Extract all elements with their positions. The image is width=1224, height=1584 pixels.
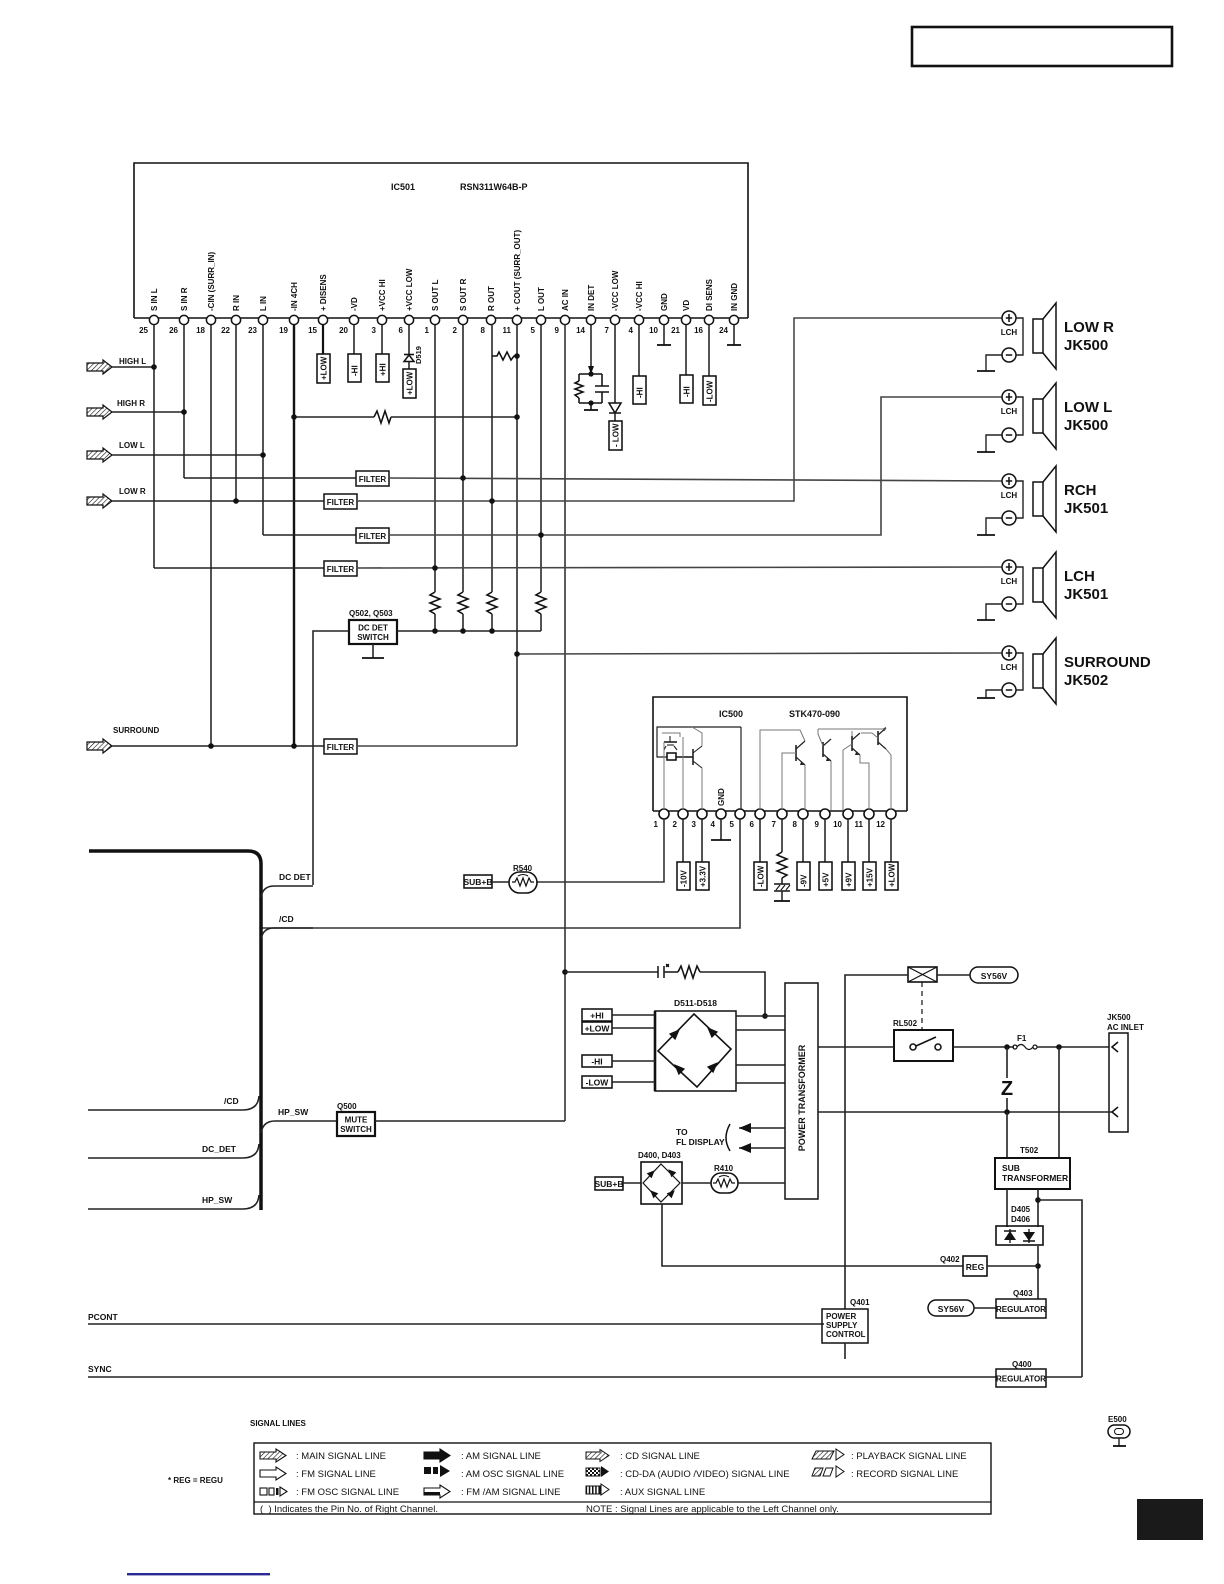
svg-text:4: 4 xyxy=(711,820,716,829)
svg-text:VD: VD xyxy=(682,300,691,311)
legend arrow AUX (vertical bars) xyxy=(586,1484,609,1495)
svg-text:1: 1 xyxy=(425,326,430,335)
svg-text:RSN311W64B-P: RSN311W64B-P xyxy=(460,182,528,192)
svg-text:S IN L: S IN L xyxy=(150,288,159,311)
svg-text:7: 7 xyxy=(605,326,610,335)
svg-text:LCH: LCH xyxy=(1001,491,1018,500)
svg-text:LOW R: LOW R xyxy=(119,487,146,496)
vertical resistor R on pin1 riser xyxy=(430,592,440,614)
svg-text:10: 10 xyxy=(649,326,658,335)
wire IC500 pin5 down to /CD line xyxy=(261,819,740,928)
svg-text:: PLAYBACK SIGNAL LINE: : PLAYBACK SIGNAL LINE xyxy=(851,1451,967,1462)
wire FILTER2 out right then up to LOW R speaker xyxy=(357,318,1002,501)
junction dot AC IN riser / primary feed xyxy=(562,969,568,975)
svg-text:SY56V: SY56V xyxy=(981,971,1008,981)
svg-text:: MAIN SIGNAL LINE: : MAIN SIGNAL LINE xyxy=(296,1451,386,1462)
wire: pin19 -IN 4CH thick riser down to surround line xyxy=(293,324,295,746)
IC500 internal transistor Q-b xyxy=(676,746,702,768)
svg-text:+ DISENS: + DISENS xyxy=(319,274,328,311)
net label box SUB+B (lower) xyxy=(594,1177,623,1190)
wire: pin8 R OUT riser xyxy=(491,324,493,592)
svg-text:SYNC: SYNC xyxy=(88,1364,112,1374)
bridge rectifier D400, D403 xyxy=(641,1162,682,1204)
ground under DC DET SWITCH xyxy=(372,644,374,658)
wire primary feed to transformer input node xyxy=(700,972,765,1016)
svg-text:AC IN: AC IN xyxy=(561,289,570,311)
wire: pin2 S OUT R riser xyxy=(462,324,464,592)
svg-text:LOW R: LOW R xyxy=(1064,319,1114,336)
wire PCONT to POWER SUPPLY CONTROL xyxy=(88,1323,824,1325)
svg-text:D406: D406 xyxy=(1011,1215,1031,1224)
IC500 internal transistor Q2 (pins 6-9) xyxy=(796,741,805,765)
IC500 internal wires group3 (light) xyxy=(818,729,891,810)
input arrow SURROUND xyxy=(87,726,159,753)
supply label box +15V at IC500 pin xyxy=(868,819,870,862)
IC501 pin 7 (-VCC LOW) xyxy=(610,315,619,324)
speaker jack JK501 RCH xyxy=(977,466,1108,535)
junction dot pin11/resistor xyxy=(514,353,520,359)
wire with resistor from pin19 riser to pin11 riser xyxy=(294,416,374,418)
legend arrow AM OSC (solid blocks) xyxy=(424,1465,450,1477)
main bus rounded box (top left, thick) xyxy=(89,851,261,1210)
svg-text:3: 3 xyxy=(692,820,697,829)
legend arrow RECORD (pattern boxes) xyxy=(812,1466,844,1477)
svg-text:16: 16 xyxy=(694,326,703,335)
svg-text:6: 6 xyxy=(750,820,755,829)
vertical resistor R on pin2 riser xyxy=(458,592,468,614)
supply label box +5V at IC500 pin xyxy=(824,819,826,862)
svg-text:D511-D518: D511-D518 xyxy=(674,998,717,1008)
wire F1 to AC inlet xyxy=(1037,1046,1109,1048)
IC500 pin 6 xyxy=(755,809,765,819)
svg-text:REGULATOR: REGULATOR xyxy=(996,1305,1046,1314)
IC501 pin 2 (S OUT R) xyxy=(458,315,467,324)
svg-text:CONTROL: CONTROL xyxy=(826,1330,866,1339)
wire DC DET from bus to DC DET SWITCH riser xyxy=(261,886,313,897)
svg-text:-IN 4CH: -IN 4CH xyxy=(290,282,299,311)
IC501 pin 18 (-CIN (SURR_IN)) xyxy=(206,315,215,324)
IC501 pin 22 (R IN) xyxy=(231,315,240,324)
supply label box +9V at IC500 pin xyxy=(847,819,849,862)
svg-text:+HI: +HI xyxy=(590,1011,603,1021)
IC501 pin 23 (L IN) xyxy=(258,315,267,324)
svg-text:L OUT: L OUT xyxy=(537,287,546,311)
svg-text:-CIN (SURR_IN): -CIN (SURR_IN) xyxy=(207,252,216,311)
IC501 pin 24 (IN GND) xyxy=(729,315,738,324)
IC500 pin 2 xyxy=(678,809,688,819)
svg-text:R IN: R IN xyxy=(232,295,241,311)
border-frame placeholder box (top right) xyxy=(912,27,1172,66)
svg-text:+VCC LOW: +VCC LOW xyxy=(405,268,414,311)
legend arrow FM (open) xyxy=(260,1467,286,1480)
diode under pin7 -VCC LOW xyxy=(614,324,616,403)
wire SURROUND to FILTER5 with junctions at pin18 and pin19 risers xyxy=(112,745,324,747)
svg-text:+LOW: +LOW xyxy=(320,356,329,380)
svg-text:2: 2 xyxy=(453,326,458,335)
wire DC_DET from left edge into bus xyxy=(88,1144,259,1158)
legend arrow FM OSC (boxes + open head) xyxy=(260,1487,287,1496)
signal oval SY56V (lower) xyxy=(928,1300,974,1316)
supply label box -LOW at IC500 pin xyxy=(759,819,761,862)
wire HIGH L to pin25 riser xyxy=(112,366,154,368)
svg-text:+9V: +9V xyxy=(845,872,854,887)
relay contact block RL502 xyxy=(894,1030,953,1061)
IC501 pin 26 (S IN R) xyxy=(179,315,188,324)
diode pack D405 D406 xyxy=(996,1226,1043,1245)
FILTER box 3 xyxy=(356,528,389,543)
pin14 IN DET arrow into RC network xyxy=(590,324,592,374)
transformer T502 SUB TRANSFORMER xyxy=(995,1158,1070,1189)
IC500 pin 5 xyxy=(735,809,745,819)
svg-text:GND: GND xyxy=(660,293,669,311)
wires sub transformer secondary down xyxy=(1006,1189,1008,1227)
svg-text:/CD: /CD xyxy=(224,1096,239,1106)
svg-text:GND: GND xyxy=(717,788,726,806)
legend arrow CD (fine hatch) xyxy=(586,1450,609,1462)
svg-text:S OUT R: S OUT R xyxy=(459,278,468,311)
wire LOW L to pin23 riser xyxy=(112,454,263,456)
svg-text:TRANSFORMER: TRANSFORMER xyxy=(1002,1173,1068,1183)
svg-text:LCH: LCH xyxy=(1001,663,1018,672)
svg-text:SUPPLY: SUPPLY xyxy=(826,1321,858,1330)
IC500 pin 3 xyxy=(697,809,707,819)
svg-text:+15V: +15V xyxy=(866,867,875,887)
svg-text:5: 5 xyxy=(531,326,536,335)
supply label box +3.3V at IC500 pin xyxy=(701,819,703,862)
wire HP_SW from left edge into bus xyxy=(88,1195,259,1209)
IC500 pin 10 xyxy=(843,809,853,819)
svg-text:8: 8 xyxy=(481,326,486,335)
svg-text:SWITCH: SWITCH xyxy=(357,633,389,642)
capacitor on primary feed wire xyxy=(565,971,658,973)
svg-text:10: 10 xyxy=(833,820,842,829)
svg-text:R OUT: R OUT xyxy=(487,286,496,311)
svg-text:11: 11 xyxy=(855,820,864,829)
IC500 internal wires group1 (light) xyxy=(662,727,702,810)
IC500 pin 9 xyxy=(820,809,830,819)
voltage box +HI xyxy=(582,1009,612,1021)
svg-text:HP_SW: HP_SW xyxy=(278,1107,309,1117)
IC501 pin 9 (AC IN) xyxy=(560,315,569,324)
wire SUB+B to D400 bridge xyxy=(623,1182,641,1184)
svg-text:SUB+B: SUB+B xyxy=(463,877,492,887)
wire FILTER4 out to LCH speaker xyxy=(357,567,1002,568)
legend box xyxy=(254,1443,991,1514)
svg-text:SY56V: SY56V xyxy=(938,1304,965,1314)
svg-text:26: 26 xyxy=(169,326,178,335)
IC501 pin 3 (+VCC HI) xyxy=(377,315,386,324)
wire pin26 riser to FILTER1 xyxy=(184,477,356,479)
svg-text:PCONT: PCONT xyxy=(88,1312,119,1322)
svg-text:JK502: JK502 xyxy=(1064,672,1108,689)
wire: pin18 -CIN riser down to surround line xyxy=(210,324,212,746)
control block Q401 POWER SUPPLY CONTROL xyxy=(822,1309,868,1343)
wire: pin22 R IN riser xyxy=(235,324,237,501)
svg-text:E500: E500 xyxy=(1108,1415,1127,1424)
svg-text:SUB: SUB xyxy=(1002,1163,1020,1173)
bridge rectifier D511-D518 xyxy=(655,1011,736,1091)
svg-text:/CD: /CD xyxy=(279,914,294,924)
wire relay coil to SY56V xyxy=(937,974,970,976)
wire pin25 riser to FILTER4 xyxy=(154,567,324,569)
solid black marker box (bottom right) xyxy=(1137,1499,1203,1540)
wire: pin1 S OUT L riser xyxy=(434,324,436,592)
wire SYNC to Q400 REGULATOR xyxy=(88,1376,996,1378)
svg-text:LCH: LCH xyxy=(1001,577,1018,586)
voltage box -HI xyxy=(582,1055,612,1067)
IC501 pin 4 (-VCC HI) xyxy=(634,315,643,324)
wire MUTE SWITCH output to AC IN riser xyxy=(375,1120,565,1122)
relay coil box (crossed) RL502 xyxy=(908,967,937,982)
IC501 pin 25 (S IN L) xyxy=(149,315,158,324)
svg-text:POWER: POWER xyxy=(826,1312,856,1321)
svg-text:5: 5 xyxy=(730,820,735,829)
IC500 internal wires group2 (light) xyxy=(760,730,805,810)
svg-text:AC INLET: AC INLET xyxy=(1107,1023,1144,1032)
legend arrow CD-DA (checkered) xyxy=(586,1466,609,1477)
wire D405 pack down to REG line xyxy=(1037,1246,1039,1299)
svg-text:: RECORD SIGNAL LINE: : RECORD SIGNAL LINE xyxy=(851,1469,958,1480)
svg-text:LOW L: LOW L xyxy=(1064,399,1112,416)
IC501 pin 11 (+ COUT (SURR_OUT)) xyxy=(512,315,521,324)
wire surround output to SURROUND speaker xyxy=(517,653,1002,654)
wire HIGH R to pin26 riser xyxy=(112,411,184,413)
svg-text:R410: R410 xyxy=(714,1164,734,1173)
svg-text:+5V: +5V xyxy=(822,872,831,887)
wire /CD from bus to IC500 pin5 line xyxy=(261,928,313,939)
ground under IN DET network xyxy=(590,403,592,410)
IC500 internal input stage box xyxy=(657,727,741,757)
svg-text:18: 18 xyxy=(196,326,205,335)
box -LOW under pin16 DI SENS xyxy=(708,324,710,376)
svg-text:9: 9 xyxy=(555,326,560,335)
input arrow HIGH L (hatched) xyxy=(87,357,146,374)
IC501 pin 1 (S OUT L) xyxy=(430,315,439,324)
capacitor/box +LOW under pin15 xyxy=(322,324,324,354)
svg-text:Z: Z xyxy=(1001,1078,1013,1100)
wire RL502 to fuse F1 xyxy=(953,1046,1014,1048)
svg-text:7: 7 xyxy=(772,820,777,829)
speaker jack JK501 LCH xyxy=(977,552,1108,620)
regulator block Q400 REGULATOR xyxy=(996,1369,1046,1387)
svg-text:REGULATOR: REGULATOR xyxy=(996,1375,1046,1384)
svg-text:JK501: JK501 xyxy=(1064,500,1108,517)
svg-text:4: 4 xyxy=(629,326,634,335)
svg-text:+HI: +HI xyxy=(379,363,388,376)
wire /CD from left edge into bus xyxy=(88,1096,259,1110)
resistor between pin8 and pin11 risers xyxy=(492,352,517,360)
transformer T501 POWER TRANSFORMER xyxy=(785,983,818,1199)
wire D400 bottom to Q402 REG xyxy=(662,1204,963,1266)
IC501 pin 6 (+VCC LOW) xyxy=(404,315,413,324)
svg-text:11: 11 xyxy=(503,326,512,335)
svg-text:-VCC LOW: -VCC LOW xyxy=(611,270,620,311)
wire SUB+B to R540 xyxy=(492,881,509,883)
svg-text:T502: T502 xyxy=(1020,1146,1039,1155)
wire DC DET SWITCH input going left and down xyxy=(313,631,349,885)
svg-text:22: 22 xyxy=(221,326,230,335)
resistor on primary feed wire xyxy=(664,971,678,973)
svg-text:RL502: RL502 xyxy=(893,1019,918,1028)
wire: pin9 AC IN riser long down to mute switch line xyxy=(564,324,566,1121)
svg-text:LCH: LCH xyxy=(1001,407,1018,416)
svg-text:LCH: LCH xyxy=(1001,328,1018,337)
svg-text:S OUT L: S OUT L xyxy=(431,279,440,311)
IC500 pin 11 xyxy=(864,809,874,819)
wire: pin11 +COUT riser down to surround filter xyxy=(516,324,518,746)
input arrow HIGH R xyxy=(87,399,145,419)
svg-text:3: 3 xyxy=(372,326,377,335)
svg-text:IC501: IC501 xyxy=(391,182,415,192)
ground under pin24 IN GND xyxy=(733,324,735,345)
vertical resistor R on pin5 riser xyxy=(536,592,546,614)
FILTER box 2 xyxy=(324,494,357,509)
svg-text:MUTE: MUTE xyxy=(345,1116,368,1125)
svg-text:: CD-DA (AUDIO /VIDEO) SIGNAL: : CD-DA (AUDIO /VIDEO) SIGNAL LINE xyxy=(620,1469,790,1480)
wire sub transformer to Q400 branch xyxy=(1038,1200,1082,1377)
svg-text:STK470-090: STK470-090 xyxy=(789,709,840,719)
svg-text:IN GND: IN GND xyxy=(730,283,739,311)
input arrow LOW L xyxy=(87,441,145,462)
supply label box +10V at IC500 pin xyxy=(682,819,684,862)
regulator block Q402 REG xyxy=(963,1256,987,1276)
IC501 pin 5 (L OUT) xyxy=(536,315,545,324)
svg-text:DC_DET: DC_DET xyxy=(202,1144,237,1154)
box -HI under pin4 xyxy=(638,324,640,376)
svg-text:-VD: -VD xyxy=(350,297,359,311)
bottom left rule mark xyxy=(127,1573,270,1575)
voltage box +LOW xyxy=(582,1022,612,1034)
svg-text:-HI: -HI xyxy=(636,387,645,398)
svg-text:12: 12 xyxy=(876,820,885,829)
IC501 pin 14 (IN DET) xyxy=(586,315,595,324)
speaker jack JK502 SURROUND xyxy=(977,638,1151,704)
svg-text:+3.3V: +3.3V xyxy=(699,865,708,887)
wire transformer to RL502 xyxy=(818,1046,894,1048)
dashed link relay coil to RL502 contacts xyxy=(921,982,923,1030)
regulator block Q403 REGULATOR xyxy=(996,1299,1046,1318)
wire HP_SW from bus to MUTE SWITCH xyxy=(261,1121,337,1133)
svg-text:* REG = REGU: * REG = REGU xyxy=(168,1476,223,1485)
svg-text:IC500: IC500 xyxy=(719,709,743,719)
svg-text:JK500: JK500 xyxy=(1107,1013,1131,1022)
svg-text:+LOW: +LOW xyxy=(585,1024,611,1034)
diode D519 under pin6 xyxy=(408,324,410,354)
svg-text:9: 9 xyxy=(815,820,820,829)
svg-text:: FM OSC SIGNAL LINE: : FM OSC SIGNAL LINE xyxy=(296,1487,399,1498)
IC501 pin 19 (-IN 4CH) xyxy=(289,315,298,324)
resistor under IC500 pin7 xyxy=(781,819,783,852)
svg-text:-HI: -HI xyxy=(591,1057,602,1067)
FILTER box 5 (surround) xyxy=(324,739,357,754)
svg-text:SURROUND: SURROUND xyxy=(113,726,159,735)
wire FILTER5 out to pin11 riser xyxy=(357,745,517,747)
svg-text:LOW L: LOW L xyxy=(119,441,145,450)
IC501 pin 10 (GND) xyxy=(659,315,668,324)
vertical resistor R on pin8 riser xyxy=(487,592,497,614)
svg-text:JK500: JK500 xyxy=(1064,417,1108,434)
wire D400 to R410 to transformer xyxy=(682,1182,711,1184)
svg-text:F1: F1 xyxy=(1017,1034,1027,1043)
svg-text:RCH: RCH xyxy=(1064,482,1097,499)
svg-text:Q400: Q400 xyxy=(1012,1360,1032,1369)
svg-text:NOTE : Signal Lines are applic: NOTE : Signal Lines are applicable to th… xyxy=(586,1504,839,1515)
svg-text:Q403: Q403 xyxy=(1013,1289,1033,1298)
legend arrow MAIN (hatched) xyxy=(260,1449,286,1462)
svg-text:TO: TO xyxy=(676,1127,688,1137)
wire LOW R to FILTER2 with junction at pin22 riser xyxy=(112,500,324,502)
junction dot pin11/y417 xyxy=(514,414,520,420)
wire relay coil to Q401 riser xyxy=(845,975,908,1309)
svg-text:DC DET: DC DET xyxy=(358,624,388,633)
wire IC500 pin1 to R540 xyxy=(537,819,664,882)
svg-text:Q401: Q401 xyxy=(850,1298,870,1307)
thermistor Z between AC lines xyxy=(1006,1047,1008,1078)
svg-text:SUB+B: SUB+B xyxy=(594,1179,623,1189)
resistor R410 (circled) xyxy=(711,1173,738,1193)
svg-text:S IN R: S IN R xyxy=(180,287,189,311)
IC500 internal transistor Q-a (input pair) xyxy=(664,736,677,750)
svg-text:25: 25 xyxy=(139,326,148,335)
legend arrow FM/AM (striped) xyxy=(424,1485,450,1498)
junction dot pin19/y417 xyxy=(291,414,297,420)
svg-text:Q402: Q402 xyxy=(940,1255,960,1264)
DC DET SWITCH block Q502/Q503 xyxy=(349,620,397,644)
wire Q400 to riser xyxy=(1046,1376,1082,1378)
AC bottom line from transformer to inlet xyxy=(818,1111,1112,1113)
svg-text:HIGH R: HIGH R xyxy=(117,399,145,408)
terminal E500 xyxy=(1108,1415,1130,1446)
svg-text:FL DISPLAY: FL DISPLAY xyxy=(676,1137,725,1147)
svg-text:( ) Indicates the Pin No. of: ( ) Indicates the Pin No. of Right Chann… xyxy=(260,1504,438,1515)
svg-text:Q502, Q503: Q502, Q503 xyxy=(349,609,393,618)
svg-text:- LOW: - LOW xyxy=(612,423,621,447)
speaker jack JK500 LOW R xyxy=(977,303,1114,371)
svg-text:JK501: JK501 xyxy=(1064,586,1108,603)
IC501 pin 15 (+ DISENS) xyxy=(318,315,327,324)
IC501 pin 8 (R OUT) xyxy=(486,315,495,324)
svg-text:-HI: -HI xyxy=(351,365,360,376)
wire: pin26 S IN R riser xyxy=(183,324,185,478)
svg-text:: FM SIGNAL LINE: : FM SIGNAL LINE xyxy=(296,1469,376,1480)
box -HI under pin20 xyxy=(353,324,355,354)
IC500 pin 12 xyxy=(886,809,896,819)
svg-text:: AUX SIGNAL LINE: : AUX SIGNAL LINE xyxy=(620,1487,705,1498)
box -LOW under pin7 diode xyxy=(614,413,616,421)
svg-text:1: 1 xyxy=(654,820,659,829)
supply label box -9V at IC500 pin xyxy=(802,819,804,862)
svg-text:2: 2 xyxy=(673,820,678,829)
svg-text:FILTER: FILTER xyxy=(359,475,387,484)
wire REG to D405 node xyxy=(987,1265,1038,1267)
legend arrow AM (solid) xyxy=(424,1449,450,1462)
svg-text:24: 24 xyxy=(719,326,728,335)
wire SY56V to Q403 xyxy=(974,1307,996,1309)
wire: pin25 S IN L riser down to filter row xyxy=(153,324,155,568)
varistor under IC500 pin7 xyxy=(781,878,783,884)
svg-text:FILTER: FILTER xyxy=(327,498,355,507)
svg-text:: AM SIGNAL LINE: : AM SIGNAL LINE xyxy=(461,1451,541,1462)
IC500 internal transistor Q5 xyxy=(878,727,886,749)
svg-text:JK500: JK500 xyxy=(1064,337,1108,354)
MUTE SWITCH block Q500 xyxy=(337,1112,375,1136)
svg-text:: FM /AM SIGNAL LINE: : FM /AM SIGNAL LINE xyxy=(461,1487,560,1498)
svg-text:IN DET: IN DET xyxy=(587,285,596,311)
svg-text:+ COUT (SURR_OUT): + COUT (SURR_OUT) xyxy=(513,230,522,311)
input arrow LOW R xyxy=(87,487,146,508)
wires bridge to power transformer xyxy=(736,1015,785,1017)
svg-text:DC DET: DC DET xyxy=(279,872,311,882)
